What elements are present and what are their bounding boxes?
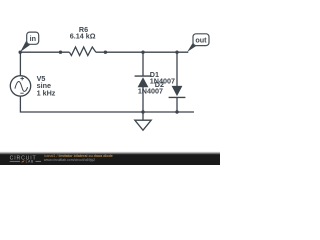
svg-text:www.circuitlab.com/circuit/u69: www.circuitlab.com/circuit/u69jq2: [44, 158, 95, 162]
svg-text:LAB: LAB: [26, 160, 34, 164]
svg-text:6.14 kΩ: 6.14 kΩ: [70, 31, 96, 40]
svg-text:out: out: [195, 36, 207, 45]
svg-text:in: in: [30, 34, 36, 43]
svg-text:1N4007: 1N4007: [138, 87, 163, 96]
svg-text:1 kHz: 1 kHz: [37, 88, 56, 97]
